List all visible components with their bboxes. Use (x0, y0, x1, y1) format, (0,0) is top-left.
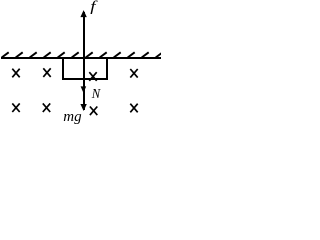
svg-text:mg: mg (63, 109, 82, 125)
svg-text:N: N (91, 85, 101, 101)
